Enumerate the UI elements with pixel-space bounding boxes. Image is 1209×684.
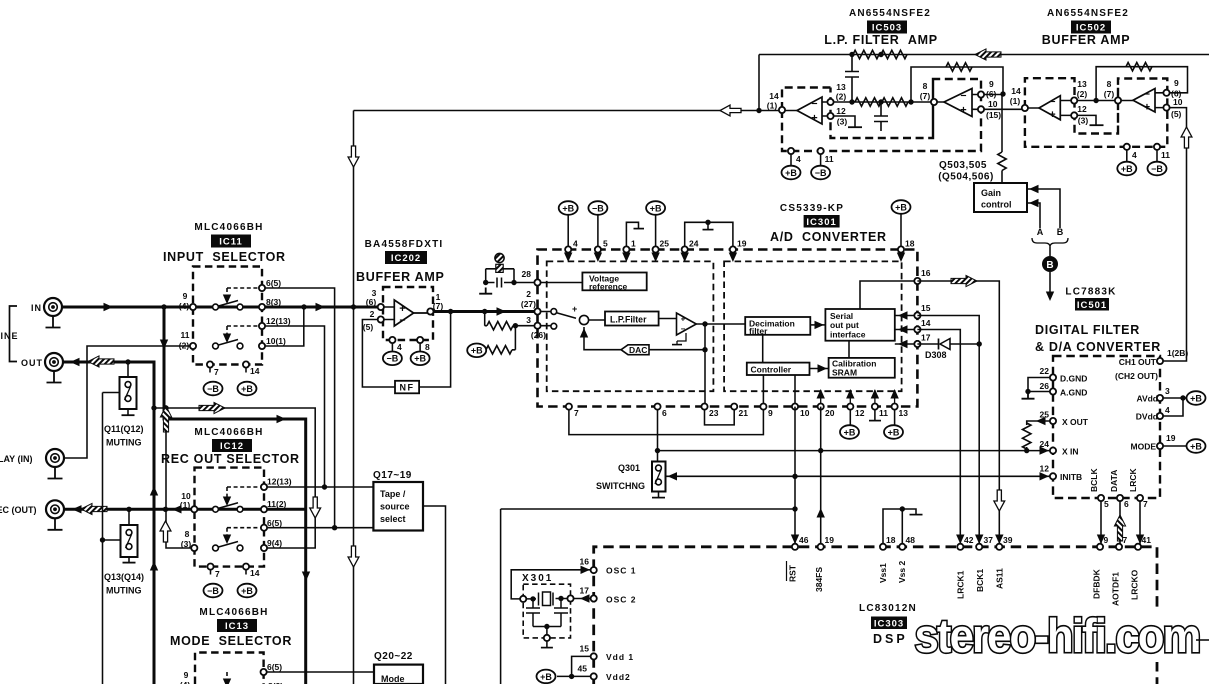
- svg-text:AVdd: AVdd: [1136, 394, 1158, 404]
- svg-text:Controller: Controller: [751, 364, 792, 374]
- svg-text:OSC 1: OSC 1: [606, 566, 637, 576]
- svg-text:−: −: [811, 98, 817, 110]
- svg-text:(2): (2): [1077, 89, 1088, 99]
- svg-text:MODE: MODE: [1131, 442, 1157, 452]
- svg-text:9: 9: [1104, 535, 1109, 545]
- svg-text:B: B: [1046, 260, 1053, 271]
- svg-text:stereo-hifi.com: stereo-hifi.com: [915, 609, 1200, 662]
- svg-text:IC303: IC303: [874, 618, 904, 629]
- svg-text:(6): (6): [366, 297, 377, 307]
- svg-text:9: 9: [183, 291, 188, 301]
- svg-text:384FS: 384FS: [814, 567, 824, 592]
- svg-text:MLC4066BH: MLC4066BH: [194, 427, 263, 438]
- svg-text:SWITCHNG: SWITCHNG: [596, 481, 645, 491]
- svg-text:BCLK: BCLK: [1089, 468, 1099, 492]
- svg-text:13: 13: [836, 82, 846, 92]
- svg-text:(7): (7): [1104, 89, 1115, 99]
- svg-text:(3): (3): [837, 117, 848, 127]
- svg-text:+: +: [572, 304, 577, 314]
- svg-text:control: control: [981, 200, 1012, 210]
- svg-text:LRCKO: LRCKO: [1130, 569, 1140, 600]
- svg-text:AS11: AS11: [995, 568, 1005, 589]
- svg-text:INITB: INITB: [1060, 472, 1082, 482]
- svg-text:11: 11: [1161, 150, 1170, 160]
- svg-text:interface: interface: [830, 330, 866, 340]
- svg-text:7: 7: [1143, 499, 1148, 509]
- svg-text:11: 11: [825, 154, 834, 164]
- svg-text:7: 7: [215, 569, 220, 579]
- svg-text:7: 7: [574, 408, 579, 418]
- svg-text:1: 1: [631, 239, 636, 249]
- svg-text:(27): (27): [521, 299, 536, 309]
- svg-text:18: 18: [886, 535, 896, 545]
- svg-text:Tape /: Tape /: [380, 489, 406, 499]
- svg-text:+: +: [681, 315, 686, 324]
- svg-text:MLC4066BH: MLC4066BH: [199, 607, 268, 618]
- svg-text:+: +: [960, 105, 966, 117]
- svg-text:11: 11: [181, 330, 190, 340]
- svg-text:IC12: IC12: [220, 441, 244, 452]
- svg-text:DSP: DSP: [873, 632, 908, 646]
- svg-text:(Q504,506): (Q504,506): [938, 172, 994, 183]
- svg-text:AOTDF1: AOTDF1: [1111, 572, 1121, 606]
- svg-text:BUFFER AMP: BUFFER AMP: [356, 270, 444, 284]
- svg-text:9: 9: [1174, 78, 1179, 88]
- svg-text:6(5): 6(5): [267, 518, 282, 528]
- svg-text:(3): (3): [1078, 116, 1089, 126]
- svg-text:42: 42: [964, 535, 974, 545]
- svg-text:45: 45: [578, 664, 588, 674]
- svg-text:L.P.Filter: L.P.Filter: [610, 315, 647, 325]
- svg-text:MODE SELECTOR: MODE SELECTOR: [170, 634, 292, 648]
- svg-text:X301: X301: [522, 573, 553, 584]
- svg-text:CH1 OUT: CH1 OUT: [1119, 357, 1157, 367]
- svg-text:6: 6: [662, 408, 667, 418]
- svg-text:MLC4066BH: MLC4066BH: [194, 222, 263, 233]
- svg-text:4: 4: [1132, 150, 1137, 160]
- svg-text:14: 14: [1011, 86, 1021, 96]
- svg-text:2: 2: [370, 309, 375, 319]
- svg-text:12: 12: [836, 106, 846, 116]
- svg-text:9: 9: [184, 670, 189, 680]
- svg-text:D.GND: D.GND: [1060, 374, 1087, 384]
- svg-text:10: 10: [988, 99, 998, 109]
- svg-text:filter: filter: [749, 326, 768, 336]
- svg-text:28: 28: [522, 269, 532, 279]
- svg-text:Q301: Q301: [618, 463, 640, 473]
- svg-text:PLAY (IN): PLAY (IN): [0, 454, 33, 464]
- svg-text:37: 37: [984, 535, 994, 545]
- svg-text:8: 8: [923, 81, 928, 91]
- svg-text:Vdd 1: Vdd 1: [606, 652, 634, 662]
- svg-text:−: −: [1144, 89, 1150, 101]
- svg-text:7: 7: [1123, 535, 1128, 545]
- svg-text:X OUT: X OUT: [1062, 417, 1089, 427]
- svg-text:12: 12: [855, 408, 865, 418]
- svg-text:+: +: [1144, 102, 1150, 114]
- svg-text:IC503: IC503: [872, 23, 902, 34]
- svg-text:17: 17: [921, 333, 931, 343]
- svg-text:21: 21: [739, 408, 749, 418]
- svg-text:25: 25: [660, 239, 670, 249]
- svg-text:19: 19: [1166, 433, 1176, 443]
- svg-text:IC502: IC502: [1076, 23, 1106, 34]
- svg-text:Q17~19: Q17~19: [373, 470, 412, 481]
- svg-text:(1): (1): [180, 500, 191, 510]
- svg-text:14: 14: [250, 568, 260, 578]
- svg-text:22: 22: [1040, 366, 1050, 376]
- svg-text:NF: NF: [400, 383, 415, 393]
- svg-text:X IN: X IN: [1062, 447, 1079, 457]
- svg-text:3: 3: [1165, 386, 1170, 396]
- svg-text:IN: IN: [31, 303, 42, 313]
- svg-text:23: 23: [709, 408, 719, 418]
- svg-text:12(13): 12(13): [266, 316, 291, 326]
- svg-text:24: 24: [1040, 439, 1050, 449]
- svg-text:CS5339-KP: CS5339-KP: [780, 203, 844, 214]
- svg-text:12: 12: [1077, 104, 1087, 114]
- svg-text:(2): (2): [179, 341, 190, 351]
- svg-text:14: 14: [921, 318, 931, 328]
- svg-text:Vss1: Vss1: [878, 563, 888, 583]
- svg-text:14: 14: [250, 366, 260, 376]
- svg-text:REC (OUT): REC (OUT): [0, 505, 37, 515]
- svg-text:LC7883K: LC7883K: [1065, 287, 1116, 298]
- svg-text:Q503,505: Q503,505: [939, 160, 987, 171]
- svg-text:1(2B): 1(2B): [1167, 348, 1188, 358]
- svg-text:(1): (1): [1010, 96, 1021, 106]
- svg-text:A/D CONVERTER: A/D CONVERTER: [770, 230, 887, 244]
- svg-text:D308: D308: [925, 350, 947, 360]
- svg-text:out put: out put: [830, 320, 859, 330]
- svg-text:15: 15: [921, 303, 931, 313]
- svg-text:39: 39: [1003, 535, 1013, 545]
- svg-text:19: 19: [737, 239, 747, 249]
- svg-text:+: +: [399, 303, 405, 315]
- svg-text:−: −: [1049, 96, 1055, 108]
- svg-text:7: 7: [214, 367, 219, 377]
- svg-text:(7): (7): [433, 301, 444, 311]
- svg-text:(5): (5): [363, 322, 374, 332]
- svg-text:10: 10: [1173, 97, 1183, 107]
- svg-text:11(2): 11(2): [267, 499, 287, 509]
- svg-text:−: −: [960, 90, 966, 102]
- svg-text:Gain: Gain: [981, 188, 1001, 198]
- svg-text:(4): (4): [180, 680, 191, 684]
- svg-text:14: 14: [769, 91, 779, 101]
- svg-text:13: 13: [1077, 79, 1087, 89]
- svg-text:2: 2: [526, 289, 531, 299]
- svg-text:Vss 2: Vss 2: [897, 561, 907, 583]
- svg-text:19: 19: [825, 535, 835, 545]
- svg-text:+: +: [1049, 109, 1055, 121]
- svg-text:9(4): 9(4): [267, 538, 282, 548]
- svg-text:(5): (5): [1171, 109, 1182, 119]
- svg-text:4: 4: [573, 239, 578, 249]
- svg-text:RST: RST: [788, 564, 798, 582]
- svg-text:20: 20: [825, 408, 835, 418]
- svg-text:10: 10: [800, 408, 810, 418]
- svg-text:OSC 2: OSC 2: [606, 595, 637, 605]
- svg-text:IC202: IC202: [391, 253, 421, 264]
- svg-text:MUTING: MUTING: [106, 586, 142, 596]
- svg-text:8: 8: [1107, 79, 1112, 89]
- svg-text:12(13): 12(13): [267, 477, 292, 487]
- svg-text:BCK1: BCK1: [975, 569, 985, 592]
- svg-text:(15): (15): [986, 110, 1001, 120]
- svg-text:−: −: [681, 325, 686, 334]
- svg-text:48: 48: [906, 535, 916, 545]
- svg-text:SRAM: SRAM: [832, 368, 857, 378]
- svg-text:BUFFER AMP: BUFFER AMP: [1042, 33, 1130, 47]
- svg-text:Q20~22: Q20~22: [374, 651, 413, 662]
- svg-text:15: 15: [580, 644, 590, 654]
- svg-text:4: 4: [796, 154, 801, 164]
- svg-text:8: 8: [425, 342, 430, 352]
- svg-text:6(5): 6(5): [267, 662, 282, 672]
- svg-text:(2): (2): [836, 92, 847, 102]
- svg-text:(1): (1): [767, 101, 778, 111]
- svg-text:DATA: DATA: [1109, 470, 1119, 492]
- svg-text:46: 46: [799, 535, 809, 545]
- svg-text:DFBDK: DFBDK: [1092, 568, 1102, 599]
- svg-text:IC501: IC501: [1077, 300, 1107, 311]
- svg-text:MUTING: MUTING: [106, 438, 142, 448]
- svg-text:L.P. FILTER AMP: L.P. FILTER AMP: [824, 33, 938, 47]
- svg-text:DAC: DAC: [629, 345, 647, 355]
- svg-text:BA4558FDXTI: BA4558FDXTI: [365, 239, 444, 250]
- svg-text:24: 24: [689, 239, 699, 249]
- svg-text:(6): (6): [986, 89, 997, 99]
- svg-text:9: 9: [768, 408, 773, 418]
- svg-text:Mode: Mode: [381, 674, 405, 684]
- svg-text:Q13(Q14): Q13(Q14): [104, 572, 144, 582]
- svg-text:DIGITAL FILTER: DIGITAL FILTER: [1035, 323, 1140, 337]
- svg-text:Q11(Q12): Q11(Q12): [104, 424, 144, 434]
- svg-text:11: 11: [879, 408, 888, 418]
- svg-text:5: 5: [603, 239, 608, 249]
- svg-text:6(5): 6(5): [266, 278, 281, 288]
- svg-text:A: A: [1037, 227, 1044, 237]
- svg-text:26: 26: [1040, 381, 1050, 391]
- svg-text:17: 17: [580, 586, 590, 596]
- svg-text:9: 9: [989, 79, 994, 89]
- svg-text:10(1): 10(1): [266, 336, 286, 346]
- svg-text:B: B: [1057, 227, 1064, 237]
- svg-text:16: 16: [580, 557, 590, 567]
- svg-text:reference: reference: [589, 282, 628, 292]
- svg-text:IC13: IC13: [225, 621, 249, 632]
- svg-text:IC301: IC301: [806, 217, 836, 228]
- svg-text:source: source: [380, 502, 410, 512]
- svg-text:8: 8: [185, 529, 190, 539]
- svg-text:AN6554NSFE2: AN6554NSFE2: [849, 8, 931, 19]
- svg-text:LRCK1: LRCK1: [956, 570, 966, 599]
- svg-text:DVdd: DVdd: [1136, 412, 1158, 422]
- svg-text:13: 13: [899, 408, 909, 418]
- svg-text:REC OUT SELECTOR: REC OUT SELECTOR: [161, 452, 300, 466]
- svg-text:(3): (3): [181, 539, 192, 549]
- svg-text:(7): (7): [920, 91, 931, 101]
- svg-text:8(3): 8(3): [266, 297, 281, 307]
- svg-text:16: 16: [921, 268, 931, 278]
- svg-text:AN6554NSFE2: AN6554NSFE2: [1047, 8, 1129, 19]
- svg-text:−: −: [399, 315, 405, 327]
- svg-text:5: 5: [1104, 499, 1109, 509]
- svg-text:+: +: [811, 113, 817, 125]
- svg-text:4: 4: [1165, 405, 1170, 415]
- svg-text:LINE: LINE: [0, 331, 19, 341]
- svg-text:6: 6: [1124, 499, 1129, 509]
- svg-text:LRCK: LRCK: [1128, 468, 1138, 492]
- svg-text:4: 4: [397, 342, 402, 352]
- svg-text:(4): (4): [179, 301, 190, 311]
- svg-text:41: 41: [1142, 535, 1152, 545]
- svg-text:INPUT SELECTOR: INPUT SELECTOR: [163, 250, 286, 264]
- svg-text:3: 3: [526, 315, 531, 325]
- svg-text:OUT: OUT: [21, 358, 43, 368]
- svg-text:& D/A CONVERTER: & D/A CONVERTER: [1035, 340, 1161, 354]
- svg-text:IC11: IC11: [219, 237, 243, 248]
- svg-text:(CH2 OUT): (CH2 OUT): [1115, 371, 1158, 381]
- svg-text:Vdd2: Vdd2: [606, 672, 631, 682]
- svg-text:18: 18: [905, 239, 915, 249]
- svg-text:12: 12: [1040, 464, 1050, 474]
- svg-text:select: select: [380, 514, 406, 524]
- svg-text:(26): (26): [531, 330, 546, 340]
- svg-text:A.GND: A.GND: [1060, 388, 1087, 398]
